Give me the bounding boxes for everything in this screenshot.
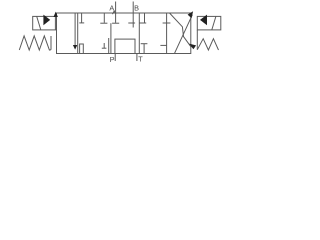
solenoid U1 triangle [43,15,50,26]
right envelope bottom bar [160,44,166,46]
right envelope crossed path 1 [170,13,192,47]
up arrow left [54,12,58,17]
left envelope flow line 2 [77,13,79,54]
valve body outer frame [57,13,191,54]
svg-text:P: P [110,55,115,64]
right envelope crossed path 2 [174,15,192,54]
right envelope blocked port T top [166,13,168,54]
center vertical line [108,38,110,54]
center notch box [115,39,135,53]
svg-text:B: B [134,3,139,12]
left envelope notch rect [80,44,84,54]
solenoid U2 slash [212,16,216,30]
svg-text:T: T [138,54,143,63]
center blocked stub 1 [103,13,105,23]
center bottom stub [103,43,105,48]
solenoid U2 triangle [200,15,207,26]
center B bars [128,22,135,24]
port line T [136,54,138,62]
center blocked stub A bar [112,22,119,24]
spring left end plate [50,36,52,50]
left envelope blocked port T [81,13,83,23]
solenoid U1 slash [37,16,41,30]
svg-text:A: A [109,3,114,12]
arrow mark on A line [113,11,116,14]
solenoid U2 box right [197,16,221,30]
left envelope flow line 1 with down arrow [74,13,76,45]
center blocked stub 3 [144,13,146,23]
proportional 4/3 directional valve schematic [0,0,250,73]
solenoid U1 box left [33,16,57,30]
port line B [132,2,134,28]
down arrow shaft right / box edge extension [196,30,198,50]
envelope divider right [138,13,140,54]
T hanging right of center box [141,43,148,45]
spring right [197,39,218,50]
port line A [115,2,117,23]
spring left [19,36,51,50]
envelope divider left [110,23,112,53]
port line P [114,54,116,62]
up arrow shaft left [54,17,56,30]
